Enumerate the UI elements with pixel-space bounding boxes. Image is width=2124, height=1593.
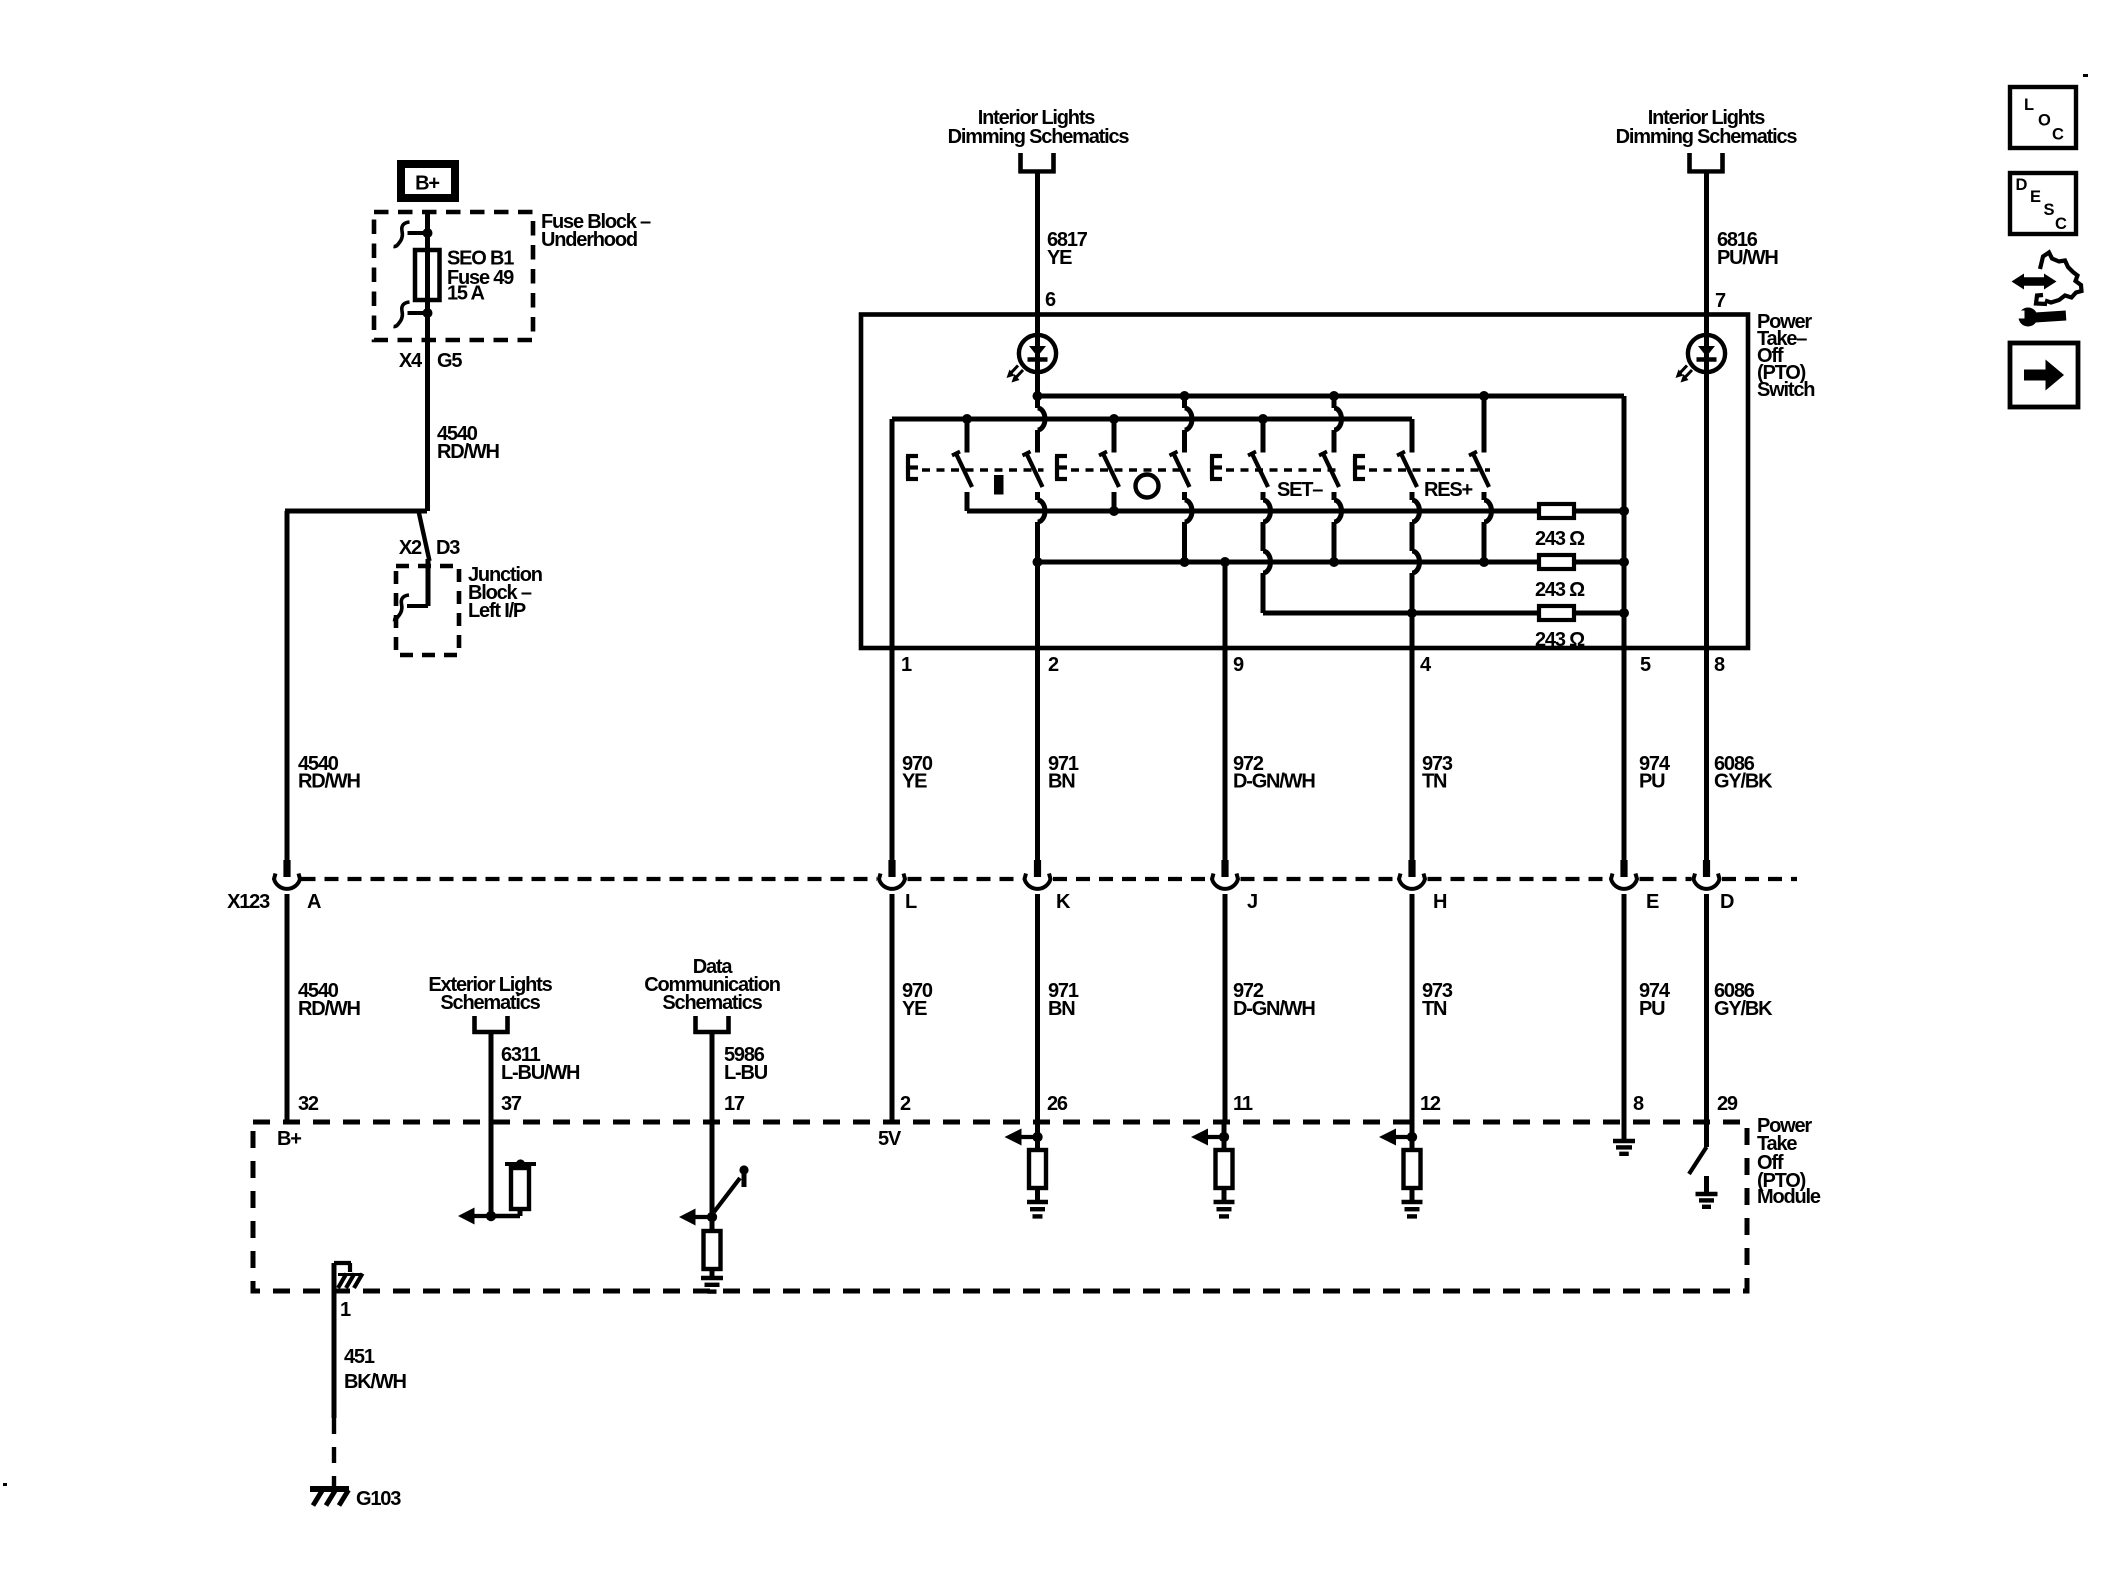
svg-text:X4: X4 [399, 350, 423, 372]
svg-text:YE: YE [1047, 247, 1072, 269]
svg-text:GY/BK: GY/BK [1714, 771, 1773, 793]
svg-text:YE: YE [902, 998, 927, 1020]
svg-text:5V: 5V [878, 1128, 902, 1150]
svg-text:BK/WH: BK/WH [344, 1371, 407, 1393]
svg-text:29: 29 [1717, 1093, 1738, 1115]
svg-text:9: 9 [1233, 654, 1244, 676]
svg-text:GY/BK: GY/BK [1714, 998, 1773, 1020]
svg-text:7: 7 [1715, 290, 1726, 312]
svg-text:J: J [1247, 891, 1257, 913]
svg-text:Left I/P: Left I/P [468, 600, 526, 622]
svg-text:243 Ω: 243 Ω [1535, 528, 1585, 550]
svg-text:PU/WH: PU/WH [1717, 247, 1778, 269]
svg-text:A: A [307, 891, 321, 913]
svg-text:X2: X2 [399, 537, 422, 559]
svg-text:RES+: RES+ [1424, 479, 1473, 501]
svg-text:1: 1 [340, 1299, 351, 1321]
svg-text:8: 8 [1714, 654, 1725, 676]
svg-text:L: L [905, 891, 917, 913]
svg-text:Schematics: Schematics [440, 992, 540, 1014]
svg-text:26: 26 [1047, 1093, 1068, 1115]
svg-text:PU: PU [1639, 998, 1665, 1020]
svg-text:TN: TN [1422, 998, 1447, 1020]
svg-text:12: 12 [1420, 1093, 1441, 1115]
svg-text:BN: BN [1048, 771, 1075, 793]
svg-text:1: 1 [901, 654, 912, 676]
svg-text:Schematics: Schematics [662, 992, 762, 1014]
svg-text:RD/WH: RD/WH [298, 998, 361, 1020]
svg-text:E: E [1646, 891, 1659, 913]
svg-text:G103: G103 [356, 1488, 401, 1510]
svg-text:C: C [2055, 215, 2067, 233]
svg-text:5: 5 [1640, 654, 1651, 676]
svg-text:SET–: SET– [1277, 479, 1323, 501]
svg-text:L: L [2024, 96, 2034, 114]
svg-text:243 Ω: 243 Ω [1535, 579, 1585, 601]
svg-text:TN: TN [1422, 771, 1447, 793]
svg-text:RD/WH: RD/WH [437, 441, 500, 463]
svg-text:451: 451 [344, 1346, 375, 1368]
svg-text:11: 11 [1233, 1093, 1253, 1115]
svg-text:D: D [2016, 176, 2028, 194]
svg-text:8: 8 [1633, 1093, 1644, 1115]
svg-text:Underhood: Underhood [541, 229, 637, 251]
svg-text:Module: Module [1757, 1186, 1821, 1208]
svg-text:D-GN/WH: D-GN/WH [1233, 998, 1315, 1020]
svg-text:15 A: 15 A [447, 283, 484, 305]
svg-text:H: H [1433, 891, 1447, 913]
svg-text:L-BU/WH: L-BU/WH [501, 1062, 580, 1084]
svg-text:6: 6 [1045, 289, 1056, 311]
svg-text:D-GN/WH: D-GN/WH [1233, 771, 1315, 793]
svg-text:2: 2 [900, 1093, 911, 1115]
svg-text:K: K [1056, 891, 1071, 913]
svg-text:O: O [2038, 112, 2051, 130]
svg-text:B+: B+ [277, 1128, 301, 1150]
svg-text:Switch: Switch [1757, 379, 1814, 401]
svg-text:S: S [2044, 201, 2055, 219]
svg-text:B+: B+ [415, 173, 439, 195]
svg-text:17: 17 [724, 1093, 745, 1115]
svg-text:2: 2 [1048, 654, 1059, 676]
svg-text:E: E [2030, 188, 2041, 206]
svg-text:32: 32 [298, 1093, 319, 1115]
svg-text:L-BU: L-BU [724, 1062, 768, 1084]
svg-text:YE: YE [902, 771, 927, 793]
svg-text:Dimming Schematics: Dimming Schematics [948, 126, 1130, 148]
svg-text:243 Ω: 243 Ω [1535, 629, 1585, 651]
svg-text:RD/WH: RD/WH [298, 771, 361, 793]
svg-text:C: C [2052, 126, 2064, 144]
svg-text:Dimming Schematics: Dimming Schematics [1616, 126, 1798, 148]
svg-text:37: 37 [501, 1093, 522, 1115]
svg-text:X123: X123 [227, 891, 270, 913]
svg-text:D: D [1720, 891, 1734, 913]
svg-text:D3: D3 [436, 537, 460, 559]
svg-text:PU: PU [1639, 771, 1665, 793]
svg-text:BN: BN [1048, 998, 1075, 1020]
svg-text:G5: G5 [437, 350, 462, 372]
